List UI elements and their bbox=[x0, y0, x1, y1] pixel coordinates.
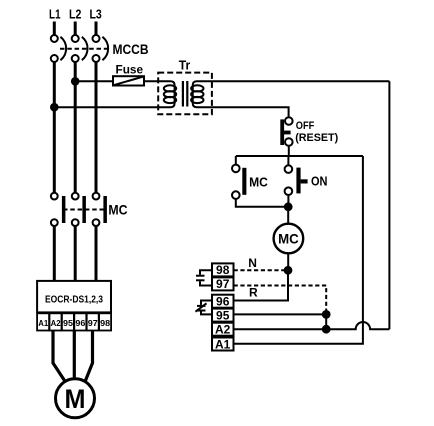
transformer secondary spine and wires: top to right riser, bottom to OFF bbox=[193, 81, 390, 117]
transformer core bbox=[182, 81, 184, 107]
svg-text:A2: A2 bbox=[215, 323, 231, 337]
terminal strip 95 bbox=[62, 313, 74, 330]
contactor MC pole 3 bbox=[93, 193, 107, 226]
svg-text:N: N bbox=[248, 256, 257, 270]
svg-text:95: 95 bbox=[63, 318, 73, 328]
svg-text:95: 95 bbox=[216, 308, 230, 322]
svg-text:MCCB: MCCB bbox=[113, 42, 149, 57]
breaker MCCB pole 1 bbox=[51, 35, 66, 62]
junction N bbox=[285, 267, 292, 274]
wire fuse to transformer primary spine bbox=[54, 81, 174, 107]
wire L1 top stub bbox=[53, 22, 56, 36]
svg-text:L3: L3 bbox=[89, 6, 101, 21]
junction L2 to fuse bbox=[72, 78, 79, 85]
wire junction to terminal 96 bbox=[234, 270, 288, 300]
wire junction to coil bbox=[287, 207, 289, 224]
wire L3 vertical bbox=[95, 62, 98, 193]
svg-text:L2: L2 bbox=[69, 6, 81, 21]
coil MC bbox=[274, 224, 304, 254]
wire L2 to fuse bbox=[75, 80, 113, 82]
contact MC (NO auxiliary) bbox=[232, 165, 246, 199]
svg-text:Fuse: Fuse bbox=[116, 62, 144, 76]
terminal A1 bbox=[212, 337, 234, 351]
svg-text:OFF: OFF bbox=[296, 120, 315, 132]
terminal 98 bbox=[212, 263, 234, 277]
wire MC branch drop bbox=[235, 156, 237, 165]
terminal 96 bbox=[212, 295, 234, 309]
transformer secondary winding bbox=[191, 85, 203, 103]
wire motor lead left bbox=[53, 331, 65, 381]
svg-text:MC: MC bbox=[278, 231, 299, 246]
svg-text:MC: MC bbox=[108, 202, 127, 217]
svg-text:98: 98 bbox=[100, 318, 110, 328]
terminal strip 96 bbox=[74, 313, 86, 330]
svg-text:97: 97 bbox=[216, 277, 230, 291]
motor M bbox=[56, 379, 95, 418]
terminal strip 98 bbox=[99, 313, 111, 330]
svg-text:(RESET): (RESET) bbox=[295, 132, 338, 144]
breaker MCCB pole 3 bbox=[93, 35, 109, 62]
svg-text:98: 98 bbox=[216, 263, 230, 277]
wire motor lead middle bbox=[73, 331, 76, 379]
contactor MC pole 2 bbox=[72, 193, 86, 226]
contact link 98-97 (NO) bbox=[196, 270, 212, 285]
wire right riser down to A2 line bbox=[388, 81, 390, 329]
push button ON (NO) bbox=[285, 165, 308, 195]
junction L1 to transformer bbox=[51, 104, 58, 111]
svg-text:96: 96 bbox=[216, 295, 230, 309]
junction A2 bbox=[323, 326, 330, 333]
svg-text:Tr: Tr bbox=[179, 58, 191, 73]
svg-text:ON: ON bbox=[311, 174, 328, 188]
contactor MC linkage (dashed) bbox=[63, 209, 105, 211]
wire 95 bbox=[234, 313, 327, 315]
wire MC contact to junction bbox=[236, 199, 285, 207]
wire OFF to control rail bbox=[288, 146, 290, 156]
wire ON drop bbox=[287, 156, 289, 165]
svg-text:97: 97 bbox=[88, 318, 98, 328]
terminal strip 97 bbox=[87, 313, 99, 330]
wire control rail bbox=[236, 155, 363, 157]
wire motor lead right bbox=[86, 331, 93, 381]
push button OFF (NC) bbox=[280, 117, 292, 146]
transformer primary winding bbox=[164, 85, 176, 103]
wire L3 top stub bbox=[95, 22, 98, 36]
wire L2 top stub bbox=[74, 22, 77, 36]
wire ON to junction bbox=[287, 195, 289, 205]
contact link 96-95 (NC with slash) bbox=[196, 301, 213, 315]
breaker MCCB linkage (dashed) bbox=[60, 48, 110, 50]
wire 97 (dashed) bbox=[234, 286, 327, 312]
wire L1 vertical bbox=[53, 62, 56, 193]
wire L1 to EOCR bbox=[53, 226, 56, 281]
svg-text:A1: A1 bbox=[215, 337, 231, 351]
svg-text:A2: A2 bbox=[51, 318, 61, 328]
terminal strip A1 bbox=[37, 313, 49, 330]
wire L3 to EOCR bbox=[95, 226, 98, 281]
wire N (dashed) to terminal 98 bbox=[234, 269, 288, 271]
wire coil to N junction bbox=[287, 253, 289, 270]
wire A2 with hop over A1 riser bbox=[234, 322, 390, 329]
junction above coil bbox=[285, 203, 292, 210]
terminal strip A2 bbox=[50, 313, 62, 330]
junction 95 bbox=[323, 311, 330, 318]
svg-text:R: R bbox=[249, 285, 258, 299]
wire L2 to EOCR bbox=[74, 226, 77, 281]
contactor MC pole 1 bbox=[51, 193, 66, 226]
relay EOCR-DS1,2,3 bbox=[37, 281, 111, 313]
terminal 95 bbox=[212, 308, 234, 322]
svg-text:EOCR-DS1,2,3: EOCR-DS1,2,3 bbox=[45, 294, 103, 305]
wire A1 to control rail riser bbox=[234, 156, 363, 344]
svg-text:A1: A1 bbox=[38, 318, 48, 328]
terminal 97 bbox=[212, 277, 234, 291]
transformer Tr box bbox=[158, 73, 212, 115]
svg-text:L1: L1 bbox=[49, 6, 61, 21]
breaker MCCB pole 2 bbox=[72, 35, 88, 62]
terminal A2 bbox=[212, 323, 234, 337]
svg-text:MC: MC bbox=[249, 175, 268, 189]
fuse bbox=[113, 76, 144, 85]
svg-text:96: 96 bbox=[75, 318, 85, 328]
svg-text:M: M bbox=[65, 384, 86, 414]
wire 95 to A2 link bbox=[325, 314, 327, 329]
wire L2 vertical bbox=[74, 62, 77, 193]
